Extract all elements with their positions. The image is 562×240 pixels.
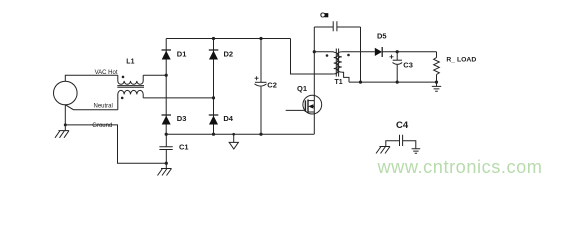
core	[336, 49, 338, 77]
svg-text:C4: C4	[396, 120, 409, 131]
svg-text:C3: C3	[403, 60, 413, 69]
capacitor C1	[159, 134, 188, 168]
wire top rail	[166, 38, 290, 40]
svg-text:L1: L1	[126, 59, 134, 66]
wire bridge right vertical	[213, 39, 215, 135]
AC source	[54, 81, 78, 105]
inductor L1	[118, 75, 143, 84]
capacitor C*	[314, 10, 362, 83]
node top-rail D2	[212, 37, 215, 40]
svg-text:Q1: Q1	[297, 84, 307, 93]
node bottom-rail D4	[212, 133, 215, 136]
svg-text:D3: D3	[177, 114, 187, 123]
capacitor C4	[386, 120, 416, 149]
secondary bottom hook	[342, 72, 349, 82]
ground earth at R_LOAD	[432, 86, 441, 91]
svg-text:T1: T1	[335, 79, 343, 86]
wire primary top	[314, 51, 333, 53]
capacitor C2	[255, 37, 277, 136]
resistor R_LOAD	[434, 52, 477, 87]
svg-text:D5: D5	[377, 31, 387, 40]
node neutral-bridge	[212, 96, 215, 99]
svg-text:D4: D4	[223, 114, 233, 123]
svg-text:VAC Hot: VAC Hot	[95, 70, 118, 76]
ground earth at C4 right	[412, 149, 421, 153]
svg-text:Neutral: Neutral	[94, 103, 113, 109]
transformer T1	[326, 49, 350, 86]
mosfet Q1	[286, 84, 322, 114]
DC minus open triangle	[229, 133, 238, 149]
wire secondary bottom rail	[349, 81, 437, 83]
wire secondary top to D5	[342, 51, 375, 53]
svg-text:Ground: Ground	[92, 123, 112, 129]
capacitor C3	[390, 50, 413, 84]
diode D4	[209, 114, 234, 125]
diode D2	[209, 49, 233, 59]
svg-text:www.cntronics.com: www.cntronics.com	[377, 157, 543, 177]
ground chassis at source	[55, 131, 69, 138]
node source-ground tee	[64, 123, 67, 126]
wire neutral L1-to-bridge	[143, 97, 213, 99]
svg-text:C2: C2	[267, 81, 277, 90]
diode D1	[162, 49, 187, 59]
node primary top	[313, 50, 316, 53]
diode D5	[375, 31, 387, 57]
wire hot L1-to-bridge	[143, 74, 166, 76]
svg-text:D1: D1	[177, 49, 187, 58]
wire bridge left vertical	[165, 39, 167, 135]
wire VAC Hot	[65, 75, 118, 81]
wire Ground loop	[65, 125, 166, 163]
wire D5 to load	[382, 51, 436, 53]
wire ground stub from source	[64, 105, 66, 131]
svg-text:R_ LOAD: R_ LOAD	[446, 57, 476, 64]
diode D3	[162, 114, 187, 125]
ground chassis at C1	[158, 169, 172, 176]
wire bottom rail	[166, 133, 314, 135]
wire drain vertical	[313, 27, 315, 134]
node bottom-rail D3/C1	[165, 133, 168, 136]
svg-text:C1: C1	[179, 143, 189, 152]
wire B+ jog to primary bottom	[291, 39, 334, 75]
primary winding	[334, 52, 338, 74]
secondary winding	[337, 52, 341, 72]
wire Neutral	[65, 105, 117, 110]
svg-text:D2: D2	[224, 49, 234, 58]
ground chassis at C4 left	[376, 147, 390, 154]
node hot-bridge	[165, 74, 168, 77]
